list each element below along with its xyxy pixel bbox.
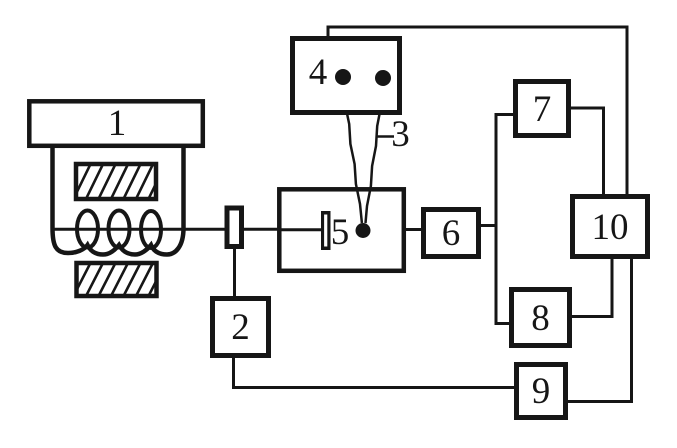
svg-text:9: 9 [532,371,551,412]
svg-text:8: 8 [531,298,550,339]
magnet pole piece bottom (hatched) [60,259,168,298]
block 2 [213,299,269,356]
wire block 8 to block 10 [568,257,612,317]
block 4 (detector) [293,39,400,113]
wire block 4 top to block 10 [328,27,627,196]
magnet coil (three loops) [77,211,161,249]
block 8 [512,290,570,346]
beam axis wire [53,228,281,231]
label 3 with leader dash [376,114,410,155]
target plate [321,211,331,250]
photocathode dot right in block 4 [375,70,391,86]
block 6 [424,210,479,257]
svg-text:2: 2 [231,307,250,348]
wire block 2 to block 9 [234,356,516,388]
svg-text:1: 1 [108,103,127,144]
wire branch to block 8 [495,322,513,325]
wire branch to block 7 [495,113,517,116]
modulator / aperture on beam axis [227,208,242,247]
wire block 7 to block 10 [567,108,604,196]
luminophore dot in chamber [356,223,371,238]
photocathode dot left in block 4 [335,69,351,85]
block 1 (power supply) [29,101,203,146]
wire aperture to block 2 [233,248,236,298]
svg-text:7: 7 [533,89,552,130]
svg-text:3: 3 [391,114,410,155]
magnet pole piece top (hatched) [60,160,168,201]
block 10 [573,197,648,257]
svg-text:10: 10 [592,207,629,248]
svg-text:5: 5 [331,212,350,253]
detector sight line right [366,84,384,223]
detector sight line left [343,82,362,223]
wire block 10 to block 9 [566,255,632,402]
beam segment inside chamber [280,228,322,231]
chamber (with target 5) [279,189,404,270]
svg-text:6: 6 [442,213,461,254]
wire block 6 to branch [477,224,498,227]
magnet yoke legs and coil bottom arcs [53,146,184,255]
wire chamber to block 6 [402,228,424,231]
svg-text:4: 4 [309,52,328,93]
block 7 [516,82,569,136]
block 9 [517,365,566,418]
branch vertical wire [495,113,498,325]
